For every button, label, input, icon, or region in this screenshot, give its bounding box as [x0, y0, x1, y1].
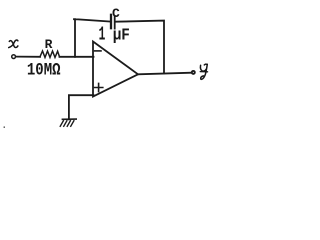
svg-text:1: 1: [99, 24, 106, 46]
svg-text:R: R: [45, 37, 53, 52]
svg-text:C: C: [112, 6, 120, 21]
svg-text:10MΩ: 10MΩ: [27, 60, 61, 80]
svg-text:F: F: [121, 26, 130, 45]
svg-text:μ: μ: [113, 25, 122, 44]
